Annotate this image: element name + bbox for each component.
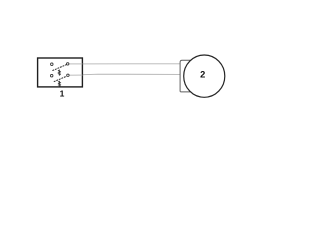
svg-text:2: 2 xyxy=(200,70,205,80)
svg-text:1: 1 xyxy=(60,89,65,99)
